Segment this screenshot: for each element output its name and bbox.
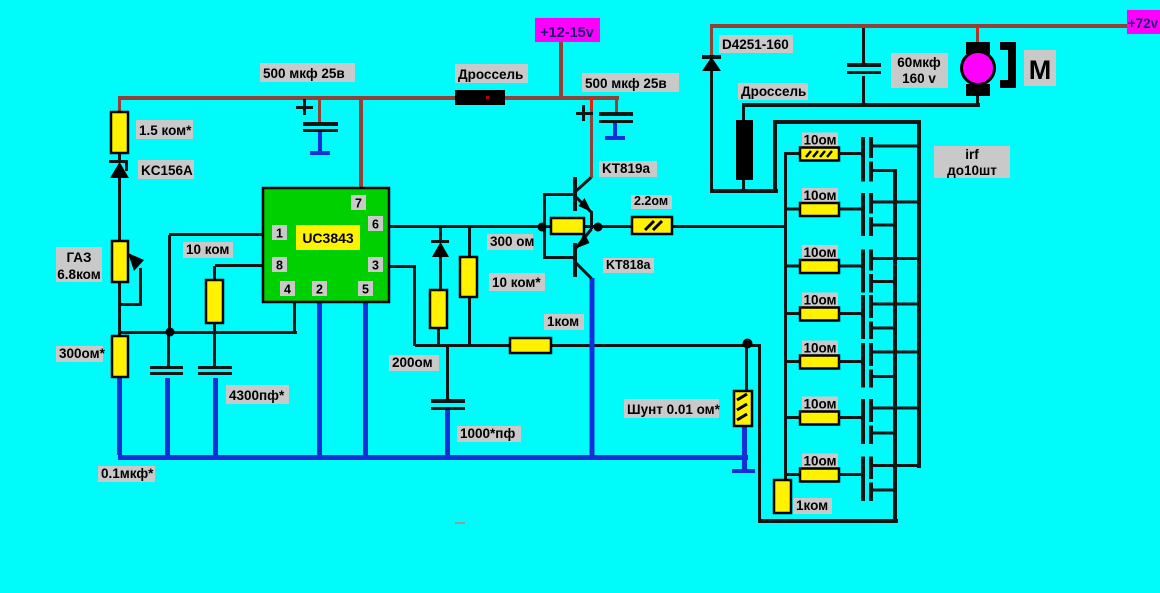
svg-text:10ом: 10ом	[803, 341, 836, 356]
svg-text:10ом: 10ом	[803, 397, 836, 412]
svg-text:300 ом: 300 ом	[490, 234, 534, 249]
svg-text:500 мкф 25в: 500 мкф 25в	[263, 66, 345, 81]
svg-text:160 v: 160 v	[902, 71, 936, 86]
svg-text:+12-15v: +12-15v	[540, 25, 594, 41]
svg-text:200ом: 200ом	[392, 355, 433, 370]
svg-text:10 ком*: 10 ком*	[492, 275, 541, 290]
svg-text:6: 6	[372, 218, 379, 232]
svg-text:KT819a: KT819a	[602, 161, 651, 176]
svg-text:UC3843: UC3843	[302, 230, 354, 246]
svg-text:6.8ком: 6.8ком	[57, 267, 100, 282]
svg-text:irf: irf	[965, 147, 979, 162]
svg-text:3: 3	[372, 259, 379, 273]
svg-text:300ом*: 300ом*	[59, 346, 106, 361]
svg-text:1ком: 1ком	[547, 314, 579, 329]
svg-text:4: 4	[284, 283, 291, 297]
svg-text:Дроссель: Дроссель	[458, 67, 523, 82]
svg-text:Шунт 0.01 ом*: Шунт 0.01 ом*	[627, 402, 721, 417]
svg-text:8: 8	[276, 259, 283, 273]
svg-text:M: M	[1029, 55, 1052, 85]
svg-text:10 ком: 10 ком	[186, 242, 229, 257]
svg-text:60мкф: 60мкф	[897, 55, 941, 70]
svg-text:7: 7	[355, 197, 362, 211]
svg-text:0.1мкф*: 0.1мкф*	[101, 466, 154, 481]
svg-text:2: 2	[316, 283, 323, 297]
svg-text:10ом: 10ом	[803, 293, 836, 308]
svg-text:1.5 ком*: 1.5 ком*	[139, 123, 192, 138]
svg-text:1: 1	[276, 227, 283, 241]
svg-text:1ком: 1ком	[796, 498, 828, 513]
svg-text:KC156A: KC156A	[141, 163, 193, 178]
svg-text:D4251-160: D4251-160	[722, 37, 789, 52]
svg-text:2.2ом: 2.2ом	[634, 194, 668, 208]
svg-text:4300пф*: 4300пф*	[229, 388, 285, 403]
svg-text:ГАЗ: ГАЗ	[66, 250, 91, 265]
svg-text:5: 5	[362, 283, 369, 297]
svg-text:10ом: 10ом	[803, 454, 836, 469]
svg-text:KT818a: KT818a	[606, 258, 652, 272]
svg-text:1000*пф: 1000*пф	[460, 426, 515, 441]
svg-text:до10шт: до10шт	[947, 163, 997, 178]
svg-text:+72v: +72v	[1128, 16, 1159, 31]
svg-text:500 мкф 25в: 500 мкф 25в	[585, 76, 667, 91]
svg-text:10ом: 10ом	[803, 188, 836, 203]
svg-text:10ом: 10ом	[803, 245, 836, 260]
svg-text:Дроссель: Дроссель	[741, 84, 806, 99]
svg-text:10ом: 10ом	[803, 133, 836, 148]
